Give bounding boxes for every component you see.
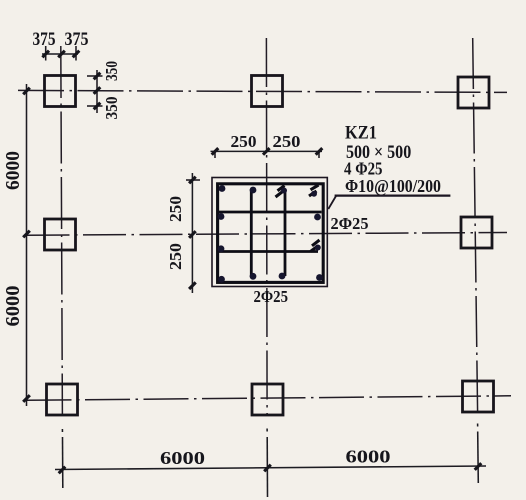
svg-text:350: 350 (102, 61, 121, 81)
extension stub right of top tick (186, 179, 200, 181)
tick 375-dim left (42, 51, 49, 58)
svg-text:375: 375 (33, 30, 56, 50)
column square middle-left (45, 219, 76, 250)
rebar dot bottom of left tie (250, 273, 257, 280)
tick bottom-dim at column A (59, 467, 66, 474)
extension line at top edge y=76 (87, 75, 103, 77)
rebar dot bottom-right corner (316, 274, 323, 281)
dimension line left 6000 (vertical at x=26.5) (26, 84, 28, 406)
tick 375-dim right (73, 51, 80, 58)
svg-text:250: 250 (273, 132, 301, 151)
KZ1 detail: inner tie horizontal upper (y=212) (219, 211, 322, 214)
svg-text:Φ10@100/200: Φ10@100/200 (345, 176, 441, 196)
extension stub below right tick (318, 151, 320, 158)
column square top-right (458, 77, 489, 108)
extension line at x=76 (75, 46, 77, 61)
KZ1 detail: stirrup (inner thick square) (218, 184, 324, 283)
grid centerline column A (vertical) (61, 46, 63, 416)
column square bottom-right (463, 381, 494, 412)
grid centerline row 2 (horizontal) (27, 233, 508, 236)
svg-text:6000: 6000 (160, 448, 205, 468)
extension line at x=45.7 (45, 46, 47, 61)
column square bottom-middle (252, 384, 283, 415)
tick bottom-dim at column B (264, 465, 271, 472)
extension line below bottom-middle square (266, 437, 268, 497)
rebar dot top of left tie (250, 187, 257, 194)
tick bottom-dim at column C (475, 463, 482, 470)
dimension line bottom 6000 (horizontal at y=468) (55, 424, 486, 498)
tick 250-top left (212, 148, 219, 155)
rebar dot bottom of right tie (279, 273, 286, 280)
svg-text:6000: 6000 (346, 447, 391, 467)
grid centerline row 3 (horizontal) (27, 396, 512, 401)
extension line at bottom edge y=106 (87, 105, 103, 107)
svg-text:250: 250 (166, 243, 185, 270)
svg-text:250: 250 (231, 132, 257, 151)
rebar dot right end of upper tie (314, 214, 321, 221)
column square top-middle (252, 76, 283, 107)
KZ1 detail: outer concrete square (212, 178, 327, 287)
tick 250-top middle (263, 148, 270, 155)
grid centerline column C (vertical) (473, 38, 478, 413)
rebar dot bottom-left corner (218, 276, 225, 283)
stirrup hook at top-right corner (309, 185, 319, 196)
rebar blob at right lower hook (315, 245, 321, 251)
svg-text:350: 350 (102, 97, 121, 120)
tick left-dim at row2 (23, 231, 30, 238)
tick 350-dim middle (94, 87, 101, 94)
column square middle-right (461, 217, 492, 248)
rebar dot left end of lower tie (218, 245, 225, 252)
svg-text:KZ1: KZ1 (345, 123, 377, 144)
tick 375-dim middle (58, 51, 65, 58)
tick 250-left bottom (189, 282, 196, 289)
extension stub below left tick (214, 151, 216, 158)
leader underline for phi10 (335, 195, 451, 197)
tick 250-top right (316, 148, 323, 155)
svg-text:375: 375 (65, 30, 89, 50)
grid centerline column B (vertical) (265, 38, 268, 416)
detail dimension 250/250 top: dimension line (211, 151, 323, 158)
centerline dot below bottom-left square (61, 429, 63, 432)
rebar blob at top-right hook (311, 191, 317, 197)
tick 350-dim bottom (94, 103, 101, 110)
KZ1 detail: inner tie vertical right (x=285) (284, 191, 287, 276)
leader diagonal to section (328, 196, 336, 209)
rebar blob at top of right tie (281, 188, 287, 194)
column square top-left (45, 76, 76, 107)
rebar dot top-left corner (219, 185, 226, 192)
rebar dot left end of upper tie (218, 213, 225, 220)
svg-text:250: 250 (166, 196, 185, 222)
extension line below bottom-left square (62, 437, 64, 488)
column square bottom-left (47, 384, 78, 415)
centerline dot below bottom-middle square (266, 429, 268, 432)
KZ1 detail: inner tie vertical left (x=251.3) (250, 189, 253, 277)
centerline dot below bottom-right square (477, 424, 479, 427)
tick 350-dim top (94, 73, 101, 80)
tick left-dim at row3 (23, 395, 30, 402)
stirrup hook at right end of lower tie (311, 240, 320, 252)
extension line below bottom-right square (477, 432, 480, 484)
tick left-dim at row1 (23, 88, 30, 95)
detail dimension 250/250 left: dimension line (186, 173, 200, 293)
svg-text:2Φ25: 2Φ25 (331, 214, 369, 233)
svg-text:2Φ25: 2Φ25 (254, 287, 289, 306)
grid centerline row 1 (horizontal) (18, 90, 507, 92)
tick 250-left middle (189, 231, 196, 238)
svg-text:6000: 6000 (2, 286, 24, 327)
tick 250-left top (189, 177, 196, 184)
svg-text:6000: 6000 (2, 151, 24, 190)
dimension 350/350 (vertical at x=97) (87, 70, 103, 113)
stirrup hook at top of right tie (276, 186, 285, 197)
KZ1 detail: inner tie horizontal lower (y=251.5) (219, 250, 318, 253)
dimension 375/375 top-left: dimension line (42, 46, 78, 61)
